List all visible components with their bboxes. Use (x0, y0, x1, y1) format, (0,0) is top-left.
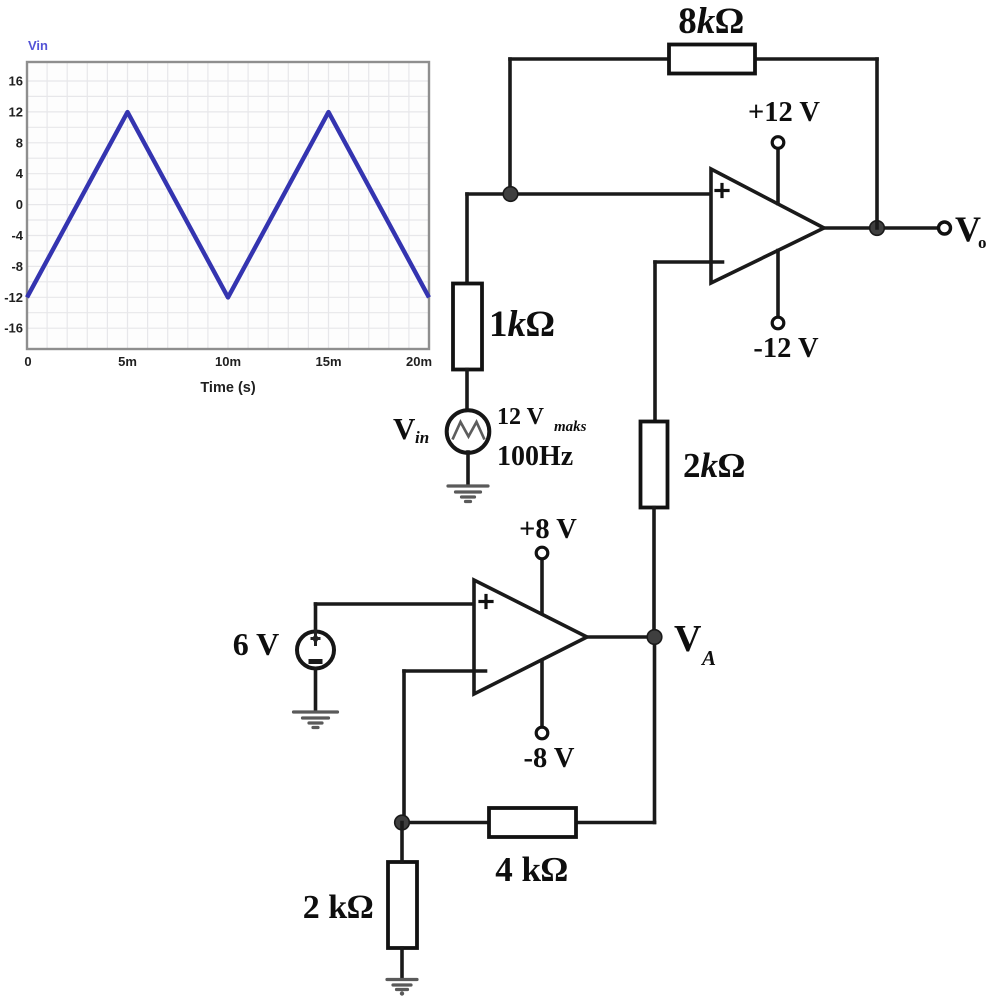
wire output node up to feedback (875, 59, 879, 228)
svg-text:V: V (674, 618, 702, 660)
source Vin triangle-wave symbol (453, 422, 485, 440)
svg-text:12: 12 (9, 104, 23, 119)
wire 6V source to ground (314, 669, 318, 710)
svg-text:-8 V: -8 V (524, 743, 575, 774)
svg-text:Time (s): Time (s) (200, 380, 256, 396)
svg-text:o: o (978, 233, 987, 252)
svg-text:4 kΩ: 4 kΩ (495, 850, 568, 889)
svg-text:V: V (393, 411, 416, 446)
resistor 2kOhm (641, 422, 668, 508)
wire U1 output (824, 226, 939, 230)
svg-text:15m: 15m (315, 354, 341, 369)
Vin triangle waveform trace (27, 112, 429, 297)
waveform plot panel background (27, 62, 429, 349)
svg-text:16: 16 (9, 74, 23, 89)
resistor 4kOhm (489, 808, 576, 837)
wire non-inverting input horizontal (467, 192, 711, 196)
wire U1 negative supply (776, 251, 780, 318)
wire left vertical from top wire down to input node (508, 59, 512, 194)
svg-text:+12 V: +12 V (748, 97, 820, 128)
svg-text:Vin: Vin (28, 38, 48, 53)
ground under 6V source (294, 712, 338, 728)
resistor 1kOhm (453, 284, 482, 370)
x-axis tick labels (24, 354, 432, 369)
wire U2 non-inverting input (316, 602, 475, 606)
node junction at output (870, 221, 885, 236)
svg-text:2kΩ: 2kΩ (683, 446, 745, 485)
svg-text:8: 8 (16, 135, 23, 150)
svg-text:+8 V: +8 V (519, 514, 577, 545)
node junction at non-inverting input (503, 187, 518, 202)
terminal -8V (536, 727, 548, 739)
ground under Vin source (448, 486, 488, 502)
wire from input node down to 1k resistor (465, 194, 469, 284)
terminal Vo open circle (939, 222, 951, 234)
terminal +8V (536, 547, 548, 559)
svg-text:-12: -12 (4, 290, 23, 305)
wire 2k resistor down to node VA (652, 508, 656, 638)
plot frame (27, 62, 429, 349)
wire top feedback from node to resistor and to output branch (510, 57, 877, 61)
resistor 2kOhm bottom (388, 862, 417, 948)
wire 1k resistor to source (465, 370, 469, 411)
source Vin circle (447, 410, 490, 453)
node junction VA (647, 630, 662, 645)
wire inverting input down to 2k resistor (653, 262, 657, 422)
wire U2 negative supply (540, 661, 544, 728)
source 6V circle (297, 632, 334, 669)
svg-text:1kΩ: 1kΩ (489, 304, 554, 345)
y-axis tick labels (4, 74, 24, 336)
plot grid (27, 62, 429, 349)
op-amp U1 triangle (711, 169, 824, 283)
wire bend down to 6V source (314, 604, 318, 630)
wire U1 positive supply (776, 149, 780, 204)
svg-text:12 V: 12 V (497, 404, 545, 430)
ground bottom (387, 980, 417, 996)
terminal -12V (772, 317, 784, 329)
wire U2 positive supply (540, 559, 544, 614)
svg-text:20m: 20m (406, 354, 432, 369)
resistor 8kOhm feedback (669, 45, 755, 74)
terminal +12V (772, 137, 784, 149)
svg-text:in: in (415, 428, 429, 447)
op-amp U2 inverting input stub (404, 669, 486, 673)
svg-text:10m: 10m (215, 354, 241, 369)
wire node down to 2k resistor (400, 823, 404, 863)
wire bottom feedback horizontal (402, 821, 655, 825)
svg-text:100Hz: 100Hz (497, 441, 573, 472)
op-amp U1 plus input marker (716, 185, 728, 197)
source 6V minus marker (309, 659, 323, 664)
svg-text:A: A (700, 646, 716, 670)
svg-text:2 kΩ: 2 kΩ (303, 889, 374, 926)
wire U2 inverting input down to feedback node (402, 671, 406, 823)
wire 2k resistor to ground (400, 948, 404, 977)
svg-text:0: 0 (24, 354, 31, 369)
svg-text:6 V: 6 V (233, 626, 280, 662)
wire node VA down to bottom feedback (653, 637, 657, 823)
node junction feedback bottom (395, 815, 410, 830)
wire U2 output to node VA (587, 635, 654, 639)
svg-text:5m: 5m (118, 354, 137, 369)
svg-text:8kΩ: 8kΩ (678, 1, 743, 42)
op-amp U1 inverting input stub (655, 260, 723, 264)
svg-text:-4: -4 (11, 228, 23, 243)
source 6V plus marker (311, 629, 321, 646)
svg-text:4: 4 (16, 166, 24, 181)
op-amp U2 plus input marker (480, 596, 492, 608)
svg-text:-12 V: -12 V (753, 333, 819, 364)
svg-text:maks: maks (554, 419, 587, 435)
wire source to ground (466, 452, 470, 483)
op-amp U2 triangle (474, 580, 587, 694)
svg-text:-16: -16 (4, 321, 23, 336)
svg-text:-8: -8 (11, 259, 23, 274)
svg-text:0: 0 (16, 197, 23, 212)
